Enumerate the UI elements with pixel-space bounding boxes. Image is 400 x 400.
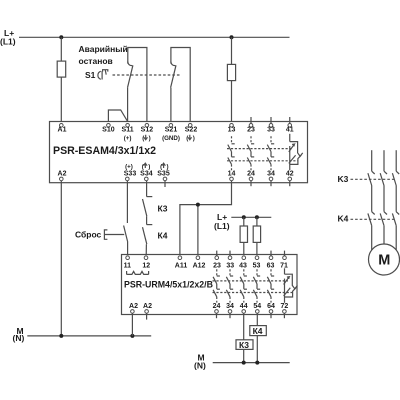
svg-text:A2: A2	[129, 303, 138, 310]
svg-text:S34: S34	[140, 171, 153, 178]
svg-text:): )	[149, 135, 151, 142]
svg-text:23: 23	[213, 263, 221, 270]
svg-text:M: M	[378, 253, 390, 269]
svg-text:(N): (N)	[194, 361, 206, 371]
svg-text:PSR-ESAM4/3x1/1x2: PSR-ESAM4/3x1/1x2	[53, 145, 156, 157]
svg-text:44: 44	[240, 303, 248, 310]
svg-text:): )	[167, 163, 169, 170]
svg-text:(L1): (L1)	[0, 36, 16, 46]
svg-text:останов: останов	[79, 56, 113, 66]
svg-text:K4: K4	[338, 214, 349, 224]
svg-text:12: 12	[142, 263, 150, 270]
svg-text:(N): (N)	[13, 333, 25, 343]
svg-text:K3: K3	[338, 174, 349, 184]
svg-text:К4: К4	[158, 230, 168, 240]
svg-text:): )	[148, 163, 150, 170]
svg-text:Аварийный: Аварийный	[79, 44, 128, 54]
svg-text:23: 23	[247, 126, 255, 133]
svg-text:A2: A2	[143, 303, 152, 310]
svg-text:PSR-URM4/5x1/2x2/B: PSR-URM4/5x1/2x2/B	[124, 280, 213, 290]
svg-text:S1: S1	[85, 70, 96, 80]
svg-text:A12: A12	[193, 263, 206, 270]
svg-text:13: 13	[228, 126, 236, 133]
svg-text:54: 54	[253, 303, 261, 310]
svg-text:14: 14	[228, 171, 236, 178]
svg-text:53: 53	[253, 263, 261, 270]
svg-text:S21: S21	[165, 126, 178, 133]
svg-text:24: 24	[247, 171, 255, 178]
svg-text:(+): (+)	[125, 163, 133, 170]
svg-text:A11: A11	[175, 263, 188, 270]
svg-text:A2: A2	[58, 171, 67, 178]
svg-text:63: 63	[267, 263, 275, 270]
svg-text:(L1): (L1)	[214, 221, 230, 231]
svg-text:33: 33	[226, 263, 234, 270]
svg-text:34: 34	[226, 303, 234, 310]
svg-text:S22: S22	[185, 126, 198, 133]
svg-text:24: 24	[213, 303, 221, 310]
svg-text:11: 11	[124, 263, 132, 270]
svg-text:64: 64	[267, 303, 275, 310]
svg-text:S35: S35	[157, 171, 170, 178]
svg-text:72: 72	[281, 303, 289, 310]
svg-text:A1: A1	[58, 126, 67, 133]
svg-text:S10: S10	[102, 126, 115, 133]
svg-text:S11: S11	[122, 126, 134, 133]
svg-text:(+): (+)	[124, 135, 132, 142]
svg-text:К4: К4	[253, 326, 263, 336]
svg-text:43: 43	[239, 263, 247, 270]
svg-text:К3: К3	[158, 203, 168, 213]
svg-text:(GND): (GND)	[162, 135, 180, 142]
svg-text:S12: S12	[141, 126, 154, 133]
svg-text:Сброс: Сброс	[75, 230, 102, 240]
svg-text:41: 41	[286, 126, 294, 133]
svg-text:34: 34	[267, 171, 275, 178]
svg-text:К3: К3	[239, 340, 249, 350]
svg-text:33: 33	[267, 126, 275, 133]
svg-text:): )	[193, 135, 195, 142]
svg-text:42: 42	[286, 171, 294, 178]
svg-text:S33: S33	[124, 171, 137, 178]
